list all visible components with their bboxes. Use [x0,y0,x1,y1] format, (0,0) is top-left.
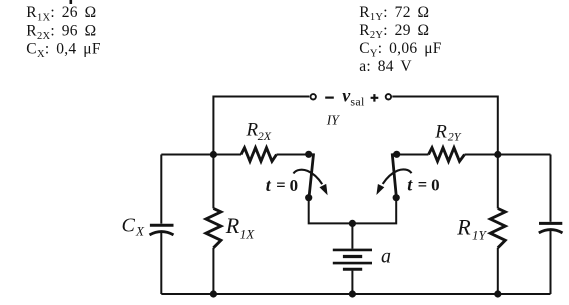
terminal (-) output [311,94,316,99]
capacitor CY branch wire upper [550,155,552,222]
svg-text:a: 84 V: a: 84 V [359,58,412,75]
capacitor CX branch wire upper [160,155,162,224]
svg-text:1Y: 1Y [472,228,488,243]
wire mid-left horizontal [161,154,241,156]
svg-text:0: 0 [290,176,299,195]
polarity plus sign [371,94,379,102]
capacitor CY branch wire lower [550,231,552,294]
svg-text:2X: 2X [258,129,272,143]
terminal (+) output [386,94,391,99]
switch S1 closing arrow [294,170,323,184]
svg-text:R: R [225,213,240,238]
node bottom battery junction [349,290,356,297]
svg-text:R: R [246,119,259,140]
wire switch S2 to battery node [352,198,396,224]
resistor R1Y branch wire lower [497,248,499,294]
battery a [333,249,372,252]
node bottom left junction [210,290,217,297]
svg-text:R1Y: 72 Ω: R1Y: 72 Ω [359,4,429,23]
switch S2 top node [393,151,400,158]
resistor R2X [241,148,277,162]
resistor R1X branch wire upper [212,155,214,209]
svg-text:R: R [434,121,447,142]
svg-text:0: 0 [431,176,440,195]
wire bottom rail [161,293,550,295]
svg-text:sal: sal [350,94,365,108]
svg-text:CY: 0,06 μF: CY: 0,06 μF [359,40,442,59]
capacitor CX [150,224,174,227]
svg-text:IY: IY [326,113,340,128]
wire battery top stub [351,223,353,248]
svg-text:C: C [122,215,136,237]
wire switch S1 to battery node [309,198,353,224]
svg-text:=: = [276,175,285,194]
resistor R1Y branch wire upper [497,155,499,209]
wire top rail left [213,97,309,155]
resistor R1Y [490,208,505,247]
resistor R2Y [429,148,465,162]
cropped glyph fragment at top edge [70,0,73,4]
polarity minus sign [325,96,334,98]
svg-text:X: X [135,223,145,238]
switch S1 top node [305,151,312,158]
wire battery bottom stub [351,271,353,294]
svg-text:a: a [381,245,391,267]
svg-text:=: = [418,175,427,194]
svg-text:t: t [407,175,413,195]
svg-text:R2Y: 29 Ω: R2Y: 29 Ω [359,22,429,41]
switch S1 bottom node [305,194,312,201]
svg-text:1X: 1X [240,226,256,241]
switch S2 blade [392,153,396,197]
wire top rail right [392,97,498,155]
node junction right mid [494,151,501,158]
svg-text:CX: 0,4 μF: CX: 0,4 μF [26,41,101,60]
resistor R1X branch wire lower [212,248,214,294]
wire R2X to switch [277,154,309,156]
resistor R1X [206,208,221,247]
capacitor CY [539,222,562,225]
wire mid-right horizontal [397,154,429,156]
node junction left mid [210,151,217,158]
svg-text:R2X: 96 Ω: R2X: 96 Ω [26,23,96,42]
svg-text:R1X: 26 Ω: R1X: 26 Ω [26,4,96,23]
wire R2Y to right cap branch [465,154,551,156]
node bottom right junction [494,290,501,297]
svg-text:R: R [456,214,471,239]
switch S2 closing arrow [383,169,412,183]
switch S2 bottom node [393,194,400,201]
svg-text:2Y: 2Y [448,129,462,143]
capacitor CX branch wire lower [160,233,162,294]
node battery top junction [349,220,356,227]
svg-text:t: t [266,175,272,195]
switch S1 blade [309,153,314,197]
